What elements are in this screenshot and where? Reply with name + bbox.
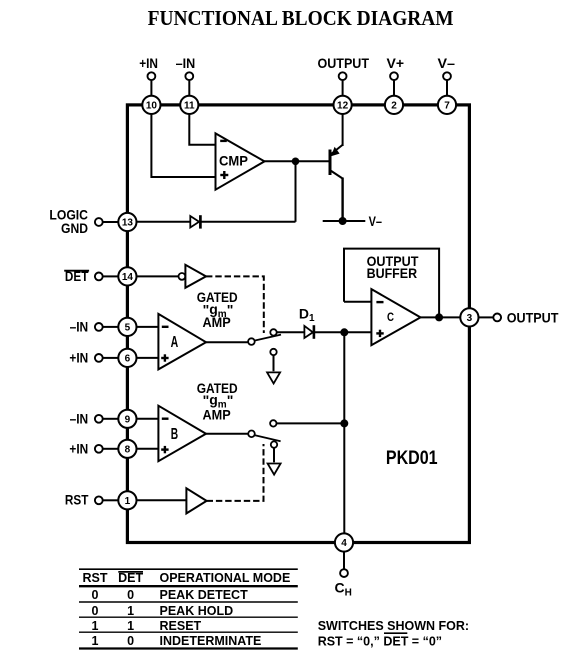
svg-text:C: C bbox=[387, 312, 394, 324]
svg-text:OUTPUT: OUTPUT bbox=[318, 55, 370, 71]
svg-text:GND: GND bbox=[61, 220, 88, 236]
wire terminal OUTPUT to pin 12 bbox=[342, 80, 344, 96]
dashed control from RST buffer to switch B bbox=[207, 444, 264, 501]
svg-text:8: 8 bbox=[125, 444, 131, 455]
svg-text:RESET: RESET bbox=[160, 619, 202, 633]
pin 13 bbox=[118, 213, 136, 231]
wire terminal to pin 14 bbox=[103, 275, 119, 277]
diode (logic gnd clamp) bbox=[190, 215, 200, 228]
pin 6 bbox=[118, 349, 136, 367]
switch A blade bbox=[254, 335, 281, 341]
wire feedback loop around output buffer bbox=[344, 249, 439, 316]
wire pin 4 to CH terminal bbox=[343, 552, 345, 570]
diode D1 bbox=[304, 325, 314, 339]
dashed control from DET buffer to switch A bbox=[206, 276, 264, 333]
wire pin 1 to RST buffer bbox=[137, 499, 187, 501]
svg-text:0: 0 bbox=[92, 588, 99, 602]
svg-text:RST: RST bbox=[65, 492, 89, 508]
svg-text:–IN: –IN bbox=[176, 55, 196, 71]
svg-text:OUTPUT: OUTPUT bbox=[507, 310, 559, 326]
svg-text:+IN: +IN bbox=[139, 55, 158, 71]
pin 9 bbox=[118, 410, 136, 428]
terminal +IN bbox=[148, 72, 156, 80]
wire terminal V+ to pin 2 bbox=[393, 80, 395, 96]
svg-text:PKD01: PKD01 bbox=[386, 448, 438, 469]
svg-text:2: 2 bbox=[391, 101, 397, 112]
svg-text:FUNCTIONAL BLOCK DIAGRAM: FUNCTIONAL BLOCK DIAGRAM bbox=[148, 6, 454, 30]
wire pin 13 to diode bbox=[137, 221, 191, 223]
svg-text:BUFFER: BUFFER bbox=[367, 265, 418, 281]
chip boundary rectangle bbox=[127, 105, 469, 543]
wire D1 to C amp + input junction bbox=[315, 331, 371, 333]
terminal V+ bbox=[390, 72, 398, 80]
switch A ground contact bbox=[270, 349, 276, 355]
svg-text:CMP: CMP bbox=[219, 153, 248, 169]
svg-text:AMP: AMP bbox=[203, 314, 231, 330]
node collector to V- bbox=[339, 217, 347, 225]
wire terminal +IN to pin 10 bbox=[150, 80, 152, 96]
switch B ground contact bbox=[271, 441, 277, 447]
svg-text:DET: DET bbox=[118, 571, 143, 585]
wire pin 11 to CMP inverting input bbox=[189, 114, 215, 145]
svg-text:SWITCHES SHOWN FOR:: SWITCHES SHOWN FOR: bbox=[318, 619, 469, 633]
svg-text:6: 6 bbox=[125, 354, 131, 365]
svg-text:–IN: –IN bbox=[70, 411, 89, 427]
svg-text:RST: RST bbox=[83, 571, 108, 585]
wire terminal to pin 13 bbox=[103, 221, 119, 223]
pin 3 bbox=[460, 308, 478, 326]
wire pin 14 to DET buffer bbox=[137, 275, 179, 277]
pin 7 bbox=[438, 96, 456, 114]
svg-text:PEAK DETECT: PEAK DETECT bbox=[160, 588, 249, 602]
wire pin 10 to CMP noninverting input bbox=[151, 114, 215, 177]
svg-text:PEAK HOLD: PEAK HOLD bbox=[160, 604, 234, 618]
svg-text:9: 9 bbox=[125, 414, 131, 425]
terminal OUTPUT (right) bbox=[493, 314, 501, 322]
wire terminal to pin 6 bbox=[103, 357, 119, 359]
ground (switch B) bbox=[268, 448, 281, 475]
switch A contact (to D1) bbox=[270, 329, 276, 335]
svg-text:14: 14 bbox=[122, 272, 134, 283]
terminal V- bbox=[443, 72, 451, 80]
svg-text:13: 13 bbox=[122, 218, 134, 229]
op-amp C bbox=[371, 289, 420, 345]
pin 2 bbox=[385, 96, 403, 114]
svg-text:7: 7 bbox=[444, 101, 450, 112]
label GATED gm AMP (A) bbox=[197, 289, 238, 330]
buffer (RST) bbox=[186, 488, 206, 513]
wire junction down to diode line bbox=[295, 161, 297, 222]
svg-text:V+: V+ bbox=[387, 55, 405, 71]
svg-text:1: 1 bbox=[92, 619, 99, 633]
terminal OUTPUT top bbox=[339, 72, 347, 80]
node feedback junction bbox=[435, 313, 443, 321]
op-amp B bbox=[158, 406, 206, 462]
wire terminal to pin 1 bbox=[103, 499, 119, 501]
svg-text:3: 3 bbox=[467, 313, 473, 324]
wire feedback to C - input bbox=[344, 301, 371, 303]
node CMP output junction bbox=[292, 158, 300, 166]
terminal -IN pin9 bbox=[95, 415, 103, 423]
pin 12 bbox=[334, 96, 352, 114]
svg-text:RST = “0,” DET = “0”: RST = “0,” DET = “0” bbox=[318, 635, 442, 649]
svg-text:10: 10 bbox=[146, 101, 158, 112]
label OUTPUT BUFFER bbox=[367, 253, 419, 281]
buffer (DET) bbox=[185, 265, 206, 288]
svg-text:1: 1 bbox=[92, 634, 99, 648]
wire pin 9 to amp B - input bbox=[137, 418, 159, 420]
label GATED gm AMP (B) bbox=[197, 380, 238, 423]
terminal RST bbox=[95, 496, 103, 504]
wire pin 8 to amp B + input bbox=[137, 448, 159, 450]
svg-text:11: 11 bbox=[184, 101, 195, 112]
svg-text:CH: CH bbox=[335, 580, 352, 599]
pin 11 bbox=[180, 96, 198, 114]
wire contact to D1 bbox=[277, 331, 305, 333]
DET buffer input bubble bbox=[179, 273, 186, 280]
svg-text:D1: D1 bbox=[299, 305, 315, 324]
svg-text:V–: V– bbox=[369, 213, 383, 229]
svg-text:–IN: –IN bbox=[70, 319, 89, 335]
wire switch B contact to CH line bbox=[277, 422, 345, 424]
terminal -IN bbox=[185, 72, 193, 80]
wire pin 5 to amp A - input bbox=[137, 326, 159, 328]
wire diode to junction bbox=[202, 221, 296, 223]
svg-text:A: A bbox=[171, 334, 179, 351]
svg-text:B: B bbox=[171, 426, 178, 443]
svg-text:0: 0 bbox=[127, 588, 134, 602]
wire terminal -IN to pin 11 bbox=[188, 80, 190, 96]
terminal LOGIC GND bbox=[95, 218, 103, 226]
wire CMP output to transistor base bbox=[265, 160, 331, 162]
switch B pole bbox=[248, 431, 255, 438]
terminal +IN pin6 bbox=[95, 354, 103, 362]
svg-text:AMP: AMP bbox=[203, 406, 231, 422]
op-amp CMP bbox=[216, 133, 265, 189]
truth table bbox=[79, 569, 298, 648]
svg-text:12: 12 bbox=[337, 101, 349, 112]
svg-text:1: 1 bbox=[127, 619, 134, 633]
op-amp A bbox=[158, 314, 206, 370]
pin 1 bbox=[118, 491, 136, 509]
svg-text:0: 0 bbox=[127, 634, 134, 648]
pin 14 bbox=[118, 267, 136, 285]
switch B blade bbox=[254, 435, 280, 441]
note SWITCHES SHOWN FOR bbox=[318, 619, 469, 649]
wire CH line from D1 junction down to pin 4 bbox=[343, 332, 345, 542]
transistor Q1 (PNP) bbox=[330, 114, 343, 221]
svg-text:INDETERMINATE: INDETERMINATE bbox=[160, 634, 262, 648]
terminal +IN pin8 bbox=[95, 445, 103, 453]
terminal -IN pin5 bbox=[95, 323, 103, 331]
ground (switch A) bbox=[267, 355, 280, 383]
wire pin 6 to amp A + input bbox=[137, 357, 159, 359]
wire C output to pin 3 bbox=[421, 316, 461, 318]
node D1 junction bbox=[340, 328, 348, 336]
svg-text:+IN: +IN bbox=[69, 350, 88, 366]
svg-text:1: 1 bbox=[127, 604, 134, 618]
wire terminal V- to pin 7 bbox=[446, 80, 448, 96]
switch B contact (to CH) bbox=[270, 420, 276, 426]
pin 4 bbox=[335, 533, 353, 551]
wire terminal to pin 5 bbox=[103, 326, 119, 328]
svg-text:V–: V– bbox=[438, 55, 456, 71]
svg-text:1: 1 bbox=[125, 496, 131, 507]
svg-text:OPERATIONAL MODE: OPERATIONAL MODE bbox=[160, 571, 291, 585]
wire pin 3 to output terminal bbox=[479, 316, 494, 318]
node switch B line junction bbox=[340, 419, 348, 427]
wire amp A output to switch pole bbox=[206, 341, 248, 343]
svg-text:+IN: +IN bbox=[69, 441, 88, 457]
wire V- stub under transistor bbox=[323, 220, 366, 222]
terminal DET bbox=[95, 273, 103, 281]
wire amp B output to switch pole bbox=[206, 433, 248, 435]
switch A pole bbox=[248, 338, 255, 345]
pin 10 bbox=[142, 96, 160, 114]
pin 8 bbox=[118, 440, 136, 458]
svg-text:5: 5 bbox=[125, 323, 131, 334]
svg-text:0: 0 bbox=[92, 604, 99, 618]
pin 5 bbox=[118, 318, 136, 336]
label DET (overline) bbox=[64, 268, 89, 284]
wire terminal to pin 9 bbox=[103, 418, 119, 420]
terminal CH bbox=[340, 569, 348, 577]
svg-text:4: 4 bbox=[341, 538, 347, 549]
wire terminal to pin 8 bbox=[103, 448, 119, 450]
